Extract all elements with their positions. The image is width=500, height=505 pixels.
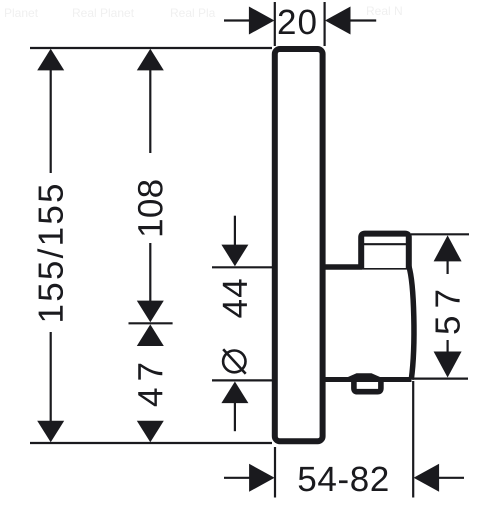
top extension line (155 top / plate top) (30, 47, 272, 49)
tick at valve centre (108/47 boundary) (129, 322, 173, 324)
20 right arrow (left-pointing) (325, 7, 351, 35)
54-82 left arrow (right-pointing) (249, 464, 275, 492)
valve body top line under knob (thin) (362, 267, 410, 270)
57 lower stub (447, 340, 449, 353)
label 57 (436, 291, 460, 334)
label diameter symbol (223, 349, 246, 373)
faint watermark row (4, 4, 403, 20)
bottom tab (function block) (354, 379, 381, 392)
label 54-82 (299, 467, 388, 492)
escutcheon plate outline (275, 49, 323, 441)
valve body right edge (slight bulge) (409, 266, 414, 380)
108 dimension line lower segment (149, 243, 151, 303)
bump of body bottom edge above tab (345, 373, 384, 378)
108 dimension line upper segment (149, 69, 151, 153)
47 top arrow (up) below centre tick (137, 324, 164, 346)
label 20 (279, 10, 316, 35)
44 lower tick (212, 379, 272, 381)
valve body bottom line (322, 377, 412, 382)
20 left extension line (274, 2, 276, 46)
57 bottom arrow (down) (434, 352, 462, 378)
20 right arrow tail (349, 19, 376, 21)
svg-text:Real Planet: Real Planet (72, 6, 135, 20)
54-82 right arrow (left-pointing) (414, 464, 440, 492)
44 dimension upper tail (234, 216, 236, 246)
57 top arrow (up) (434, 235, 462, 261)
54-82 right arrow tail (437, 477, 464, 479)
155 dimension line upper segment (50, 69, 52, 173)
label 108 (138, 180, 163, 235)
valve body top shoulder (thick part, plate to knob) (322, 264, 362, 270)
57 upper stub (447, 261, 449, 274)
knob cap seam (363, 243, 407, 245)
svg-text:Real N: Real N (366, 4, 403, 18)
20 right extension line (324, 2, 326, 46)
knob (stop handle) outline (361, 234, 409, 268)
44 top arrow (down) (221, 245, 248, 267)
57 top extension line (411, 233, 469, 235)
20 left arrow (right-pointing) (249, 7, 275, 35)
svg-text:Planet: Planet (4, 6, 39, 20)
54-82 left arrow tail (224, 477, 251, 479)
svg-text:Real Pla: Real Pla (170, 6, 216, 20)
47 bottom arrow (down) (137, 421, 164, 443)
label 47 (138, 364, 162, 406)
44 dimension lower tail (234, 402, 236, 431)
54-82 right extension line (412, 381, 414, 498)
155 top arrow (up) (37, 49, 64, 71)
108 top arrow (up) (137, 49, 164, 71)
108 bottom arrow (down) at centre tick (137, 301, 164, 323)
20 left arrow tail (224, 19, 251, 21)
label 44 (223, 279, 247, 317)
57 bottom extension line (412, 378, 468, 380)
label 155/155 (37, 185, 63, 321)
155 bottom arrow (down) (37, 421, 64, 443)
155 dimension line lower segment (50, 332, 52, 421)
54-82 left extension line (274, 447, 276, 498)
44 bottom arrow (up) (221, 382, 248, 404)
44 upper tick (212, 266, 272, 268)
bottom extension line (155 bottom / plate bottom) (30, 442, 272, 444)
